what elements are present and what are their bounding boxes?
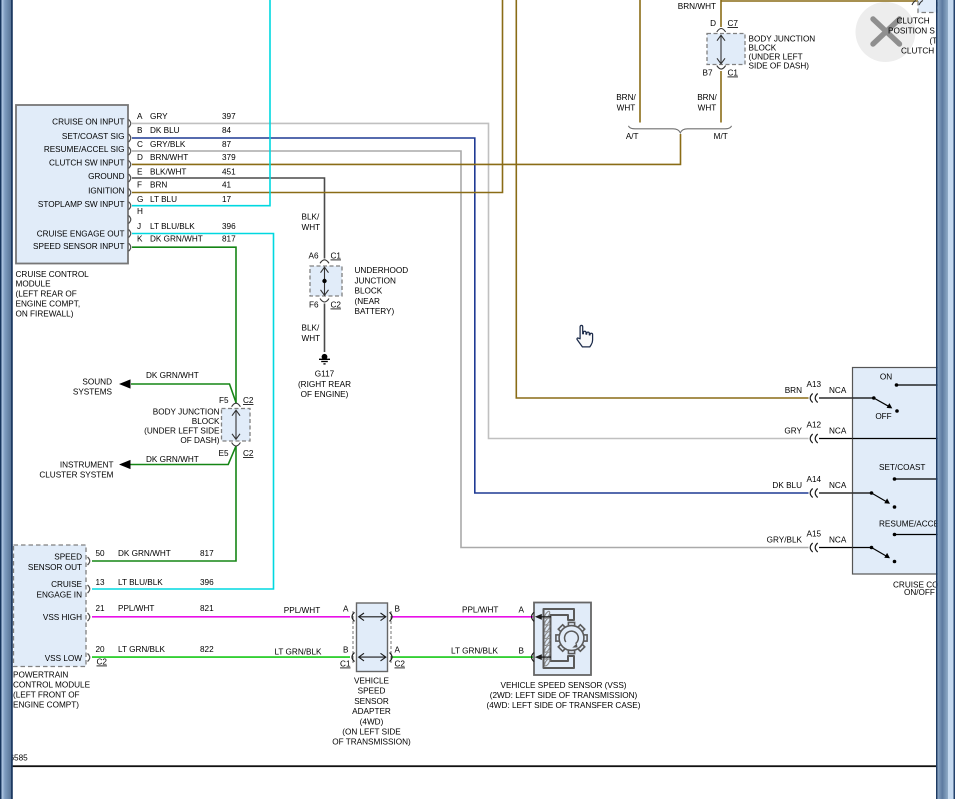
svg-text:BLK/: BLK/ — [302, 324, 320, 333]
underhood junction block internal arrow — [321, 267, 329, 295]
wire GRY/BLK 87 (pin C to A15) — [132, 151, 809, 548]
svg-text:RESUME/ACCEL: RESUME/ACCEL — [879, 520, 944, 529]
svg-text:SENSOR OUT: SENSOR OUT — [28, 563, 82, 572]
ground G117 caption — [298, 370, 351, 400]
svg-text:817: 817 — [200, 549, 214, 558]
svg-text:13: 13 — [96, 578, 106, 587]
arrow to sound systems — [119, 379, 131, 388]
svg-text:POWERTRAIN: POWERTRAIN — [13, 671, 68, 680]
svg-text:396: 396 — [200, 578, 214, 587]
wire BRN/WHT M/T branch lower — [720, 71, 722, 123]
svg-text:A: A — [395, 646, 401, 655]
svg-text:ON: ON — [880, 373, 892, 382]
svg-text:BRN/: BRN/ — [697, 93, 717, 102]
module pin letters A-K — [137, 112, 143, 244]
svg-text:BLK/WHT: BLK/WHT — [150, 167, 186, 176]
svg-text:A13: A13 — [807, 380, 822, 389]
svg-text:WHT: WHT — [302, 334, 321, 343]
svg-text:F6: F6 — [309, 301, 319, 310]
svg-text:VSS HIGH: VSS HIGH — [43, 613, 82, 622]
svg-text:17: 17 — [222, 195, 232, 204]
svg-text:CLUTCH: CLUTCH — [897, 16, 930, 25]
svg-text:MODULE: MODULE — [16, 280, 52, 289]
body junction block (under left side of dash, mid) — [222, 409, 251, 442]
svg-text:SYSTEMS: SYSTEMS — [73, 388, 113, 397]
svg-text:SOUND: SOUND — [82, 377, 112, 386]
vss sensor gear — [556, 622, 587, 653]
svg-text:C7: C7 — [728, 19, 739, 28]
vss caption — [487, 681, 641, 710]
vss adapter dashed connector lines — [352, 611, 354, 663]
svg-text:CONTROL MODULE: CONTROL MODULE — [13, 681, 91, 690]
svg-text:SET/COAST: SET/COAST — [879, 463, 925, 472]
vehicle speed sensor box — [534, 603, 591, 676]
svg-text:BRN: BRN — [150, 181, 167, 190]
svg-text:CRUISE ENGAGE OUT: CRUISE ENGAGE OUT — [37, 230, 125, 239]
svg-text:20: 20 — [96, 645, 106, 654]
svg-text:C1: C1 — [340, 660, 351, 669]
set/coast switch — [870, 463, 940, 509]
PCM connector arcs pins 50,13,21,20 — [88, 557, 90, 662]
svg-text:NCA: NCA — [829, 481, 847, 490]
wire DK GRN/WHT branch to instrument cluster — [130, 446, 236, 465]
svg-text:A: A — [137, 112, 143, 121]
cruise control module connector arcs pins A-K — [129, 119, 131, 251]
svg-text:21: 21 — [96, 604, 106, 613]
svg-text:822: 822 — [200, 645, 214, 654]
svg-text:DK GRN/WHT: DK GRN/WHT — [146, 371, 199, 380]
svg-text:BRN/WHT: BRN/WHT — [678, 2, 716, 11]
svg-text:A6: A6 — [308, 252, 318, 261]
module wire name labels — [150, 112, 203, 244]
svg-text:(RIGHT REAR: (RIGHT REAR — [298, 380, 351, 389]
svg-text:POSITION S: POSITION S — [888, 26, 935, 35]
svg-text:CRUISE: CRUISE — [51, 580, 82, 589]
svg-text:LT BLU: LT BLU — [150, 195, 177, 204]
svg-text:817: 817 — [222, 235, 236, 244]
brace joining A/T and M/T branches — [629, 126, 732, 133]
body junction block top internal arrow — [717, 35, 725, 64]
clutch position switch stub (top right, cut off) — [918, 0, 938, 13]
svg-text:A14: A14 — [807, 475, 822, 484]
svg-text:VEHICLE SPEED SENSOR (VSS): VEHICLE SPEED SENSOR (VSS) — [500, 681, 626, 690]
svg-text:DK GRN/WHT: DK GRN/WHT — [150, 235, 203, 244]
svg-text:ON FIREWALL): ON FIREWALL) — [16, 310, 74, 319]
svg-text:396: 396 — [222, 222, 236, 231]
svg-text:SENSOR: SENSOR — [354, 697, 389, 706]
vss adapter internal arrow bottom — [359, 653, 386, 661]
svg-text:(ON LEFT SIDE: (ON LEFT SIDE — [342, 728, 401, 737]
svg-text:PPL/WHT: PPL/WHT — [462, 606, 498, 615]
svg-text:G: G — [137, 195, 143, 204]
wire BRN/WHT M/T branch upper — [720, 0, 722, 27]
svg-text:C: C — [137, 140, 143, 149]
pin A13 connector — [810, 394, 818, 403]
body junction block (under left side of dash, top) — [707, 34, 745, 65]
svg-text:NCA: NCA — [829, 536, 847, 545]
wire DK GRN/WHT branch to sound systems — [131, 384, 236, 403]
diagram bottom border — [13, 765, 937, 767]
svg-text:BATTERY): BATTERY) — [355, 307, 395, 316]
svg-text:NCA: NCA — [829, 427, 847, 436]
svg-text:IGNITION: IGNITION — [88, 187, 124, 196]
svg-text:451: 451 — [222, 167, 236, 176]
svg-text:A12: A12 — [807, 421, 822, 430]
svg-text:UNDERHOOD: UNDERHOOD — [355, 266, 409, 275]
svg-text:(UNDER LEFT SIDE: (UNDER LEFT SIDE — [144, 427, 220, 436]
svg-text:397: 397 — [222, 112, 236, 121]
svg-text:A/T: A/T — [626, 132, 639, 141]
svg-text:OFF: OFF — [875, 412, 891, 421]
svg-text:379: 379 — [222, 153, 236, 162]
powertrain control module box — [14, 545, 87, 667]
vss adapter internal arrow top — [359, 613, 386, 621]
vss pin A connector — [532, 612, 535, 621]
svg-text:C2: C2 — [395, 660, 406, 669]
vss sensor swirl arrow — [565, 631, 579, 643]
svg-text:GRY: GRY — [784, 427, 802, 436]
svg-text:CRUISE CONTROL: CRUISE CONTROL — [16, 270, 90, 279]
svg-text:DK GRN/WHT: DK GRN/WHT — [118, 549, 171, 558]
svg-text:(NEAR: (NEAR — [355, 297, 381, 306]
body junction block top connector arcs D/C7 B7/C1 — [717, 29, 726, 70]
svg-text:BLK/: BLK/ — [302, 213, 320, 222]
on/off switch — [872, 373, 940, 421]
resume/accel switch — [870, 520, 944, 564]
svg-text:(LEFT FRONT OF: (LEFT FRONT OF — [13, 691, 80, 700]
wire LT BLU/BLK 396 (pin J to PCM cruise engage in) — [92, 234, 274, 590]
vss adapter caption — [332, 677, 411, 747]
wire BLK/WHT 451 upper segment (pin E to underhood junction block) — [132, 178, 325, 259]
A14 lead into box — [853, 492, 872, 494]
svg-text:E: E — [137, 167, 143, 176]
svg-text:CRUISE ON INPUT: CRUISE ON INPUT — [52, 117, 124, 126]
svg-text:VSS LOW: VSS LOW — [45, 654, 83, 663]
cruise control module box — [16, 105, 128, 264]
close button — [856, 2, 916, 62]
wire DK GRN/WHT 817 upper segment (pin K to body junction block F5) — [132, 247, 236, 403]
svg-text:JUNCTION: JUNCTION — [355, 276, 396, 285]
svg-text:CLUTCH: CLUTCH — [901, 46, 934, 55]
arrow to instrument cluster — [119, 460, 131, 469]
wire PPL/WHT 821 (PCM pin 21 to adapter) — [92, 616, 350, 618]
svg-text:BODY JUNCTION: BODY JUNCTION — [749, 34, 816, 43]
svg-text:GROUND: GROUND — [88, 172, 124, 181]
vss sensor body C-shape — [544, 609, 575, 668]
svg-text:BLOCK: BLOCK — [192, 417, 220, 426]
PCM pin labels — [28, 553, 83, 664]
black lead pin A14 to switch box — [819, 492, 871, 494]
wire PPL/WHT (adapter to VSS pin A) — [392, 616, 533, 618]
svg-text:C1: C1 — [331, 252, 342, 261]
svg-text:F: F — [137, 181, 142, 190]
svg-text:VEHICLE: VEHICLE — [354, 677, 390, 686]
svg-text:BRN/WHT: BRN/WHT — [150, 153, 188, 162]
svg-text:M/T: M/T — [714, 132, 728, 141]
wire BLK/WHT 451 lower segment (junction block to ground G117) — [324, 304, 326, 353]
left window frame — [0, 0, 13, 799]
svg-text:DK BLU: DK BLU — [772, 481, 802, 490]
ground G117 — [319, 354, 330, 364]
svg-text:INSTRUMENT: INSTRUMENT — [60, 460, 114, 469]
pin A15 connector — [810, 543, 818, 552]
svg-text:B: B — [343, 646, 349, 655]
wire LT GRN/BLK (adapter to VSS pin B) — [392, 656, 533, 658]
svg-text:41: 41 — [222, 181, 232, 190]
svg-text:GRY/BLK: GRY/BLK — [767, 536, 803, 545]
svg-text:B: B — [519, 647, 525, 656]
svg-text:WHT: WHT — [302, 223, 321, 232]
underhood junction block caption — [355, 266, 409, 316]
svg-text:SET/COAST SIG: SET/COAST SIG — [62, 132, 125, 141]
wire BRN/WHT top run to clutch position switch — [721, 0, 918, 2]
svg-text:RESUME/ACCEL SIG: RESUME/ACCEL SIG — [44, 145, 125, 154]
wire LT BLU 17 (pin G stoplamp feed to top) — [132, 0, 270, 206]
wire BRN feed to A13 (from top) — [516, 0, 808, 398]
svg-text:BODY JUNCTION: BODY JUNCTION — [153, 408, 220, 417]
pin A12 connector — [810, 434, 818, 443]
wire LT GRN/BLK 822 (PCM pin 20 to adapter) — [92, 656, 350, 658]
svg-text:(UNDER LEFT: (UNDER LEFT — [749, 52, 803, 61]
svg-text:D: D — [137, 153, 143, 162]
svg-text:ADAPTER: ADAPTER — [352, 707, 391, 716]
vss sensor coil — [544, 611, 551, 667]
svg-text:(LEFT REAR OF: (LEFT REAR OF — [16, 290, 77, 299]
svg-text:CLUTCH SW INPUT: CLUTCH SW INPUT — [49, 158, 125, 167]
svg-text:LT BLU/BLK: LT BLU/BLK — [118, 578, 163, 587]
svg-text:G117: G117 — [315, 370, 335, 379]
wire GRY 397 (pin A to A12) — [132, 123, 809, 438]
A15 lead into box — [853, 547, 872, 549]
svg-text:OF ENGINE): OF ENGINE) — [301, 390, 349, 399]
svg-text:84: 84 — [222, 126, 232, 135]
wire BRN 41 (pin F ignition feed from top) — [132, 0, 503, 193]
svg-text:50: 50 — [96, 549, 106, 558]
svg-text:SPEED: SPEED — [54, 553, 82, 562]
underhood junction block — [310, 266, 342, 296]
body junction block top caption — [749, 34, 816, 70]
module circuit numbers — [222, 112, 236, 244]
svg-text:ENGINE COMPT): ENGINE COMPT) — [13, 701, 79, 710]
svg-text:ENGAGE IN: ENGAGE IN — [37, 591, 83, 600]
svg-text:BLOCK: BLOCK — [749, 43, 777, 52]
svg-text:821: 821 — [200, 604, 214, 613]
svg-text:A: A — [519, 606, 525, 615]
svg-text:LT BLU/BLK: LT BLU/BLK — [150, 222, 195, 231]
svg-text:CLUSTER SYSTEM: CLUSTER SYSTEM — [39, 471, 113, 480]
svg-text:GRY: GRY — [150, 112, 168, 121]
svg-text:C2: C2 — [243, 396, 254, 405]
wire BRN/WHT A/T branch — [639, 0, 641, 123]
svg-text:LT GRN/BLK: LT GRN/BLK — [118, 645, 166, 654]
svg-text:LT GRN/BLK: LT GRN/BLK — [451, 647, 499, 656]
body junction block caption — [144, 408, 220, 446]
svg-text:OF TRANSMISSION): OF TRANSMISSION) — [332, 738, 411, 747]
svg-text:A: A — [343, 605, 349, 614]
svg-text:SPEED: SPEED — [358, 687, 386, 696]
svg-text:(2WD: LEFT SIDE OF TRANSMISSIO: (2WD: LEFT SIDE OF TRANSMISSION) — [490, 691, 638, 700]
svg-text:WHT: WHT — [698, 104, 717, 113]
svg-text:D: D — [710, 19, 716, 28]
svg-text:C2: C2 — [97, 658, 108, 667]
svg-text:PPL/WHT: PPL/WHT — [284, 606, 320, 615]
svg-text:C2: C2 — [331, 301, 342, 310]
cruise control module pin labels — [33, 117, 125, 251]
svg-text:C2: C2 — [243, 449, 254, 458]
svg-text:PPL/WHT: PPL/WHT — [118, 604, 154, 613]
black lead pin A13 to switch box — [819, 397, 873, 399]
wire BRN/WHT 379 (pin D to A/T-M/T brace) — [132, 134, 681, 164]
svg-text:B: B — [395, 605, 401, 614]
cruise control on/off switch box — [853, 368, 941, 575]
pin A14 connector — [810, 489, 818, 498]
svg-text:B: B — [137, 126, 143, 135]
cruise control module caption — [16, 270, 90, 319]
svg-text:K: K — [137, 235, 143, 244]
svg-text:WHT: WHT — [617, 104, 636, 113]
svg-text:(4WD): (4WD) — [360, 717, 384, 726]
svg-text:OF DASH): OF DASH) — [180, 436, 219, 445]
svg-text:E5: E5 — [218, 449, 228, 458]
svg-text:(4WD: LEFT SIDE OF TRANSFER CA: (4WD: LEFT SIDE OF TRANSFER CASE) — [487, 701, 641, 710]
wire DK BLU 84 (pin B to A14) — [132, 138, 809, 493]
black lead pin A15 to switch box — [819, 547, 871, 549]
svg-text:LT GRN/BLK: LT GRN/BLK — [274, 648, 322, 657]
svg-text:A15: A15 — [807, 530, 822, 539]
svg-text:NCA: NCA — [829, 386, 847, 395]
svg-text:J: J — [137, 222, 141, 231]
svg-text:GRY/BLK: GRY/BLK — [150, 140, 186, 149]
svg-text:87: 87 — [222, 140, 232, 149]
vss adapter box — [357, 603, 388, 672]
svg-text:F5: F5 — [219, 396, 229, 405]
A12 common line through switch box — [853, 438, 941, 440]
svg-text:B7: B7 — [702, 69, 712, 78]
black lead pin A12 through switch box — [819, 438, 940, 440]
vss adapter connector arcs bottom — [352, 653, 392, 662]
svg-text:H: H — [137, 207, 143, 216]
svg-text:ENGINE COMPT,: ENGINE COMPT, — [16, 300, 81, 309]
svg-text:STOPLAMP SW INPUT: STOPLAMP SW INPUT — [38, 200, 125, 209]
svg-text:SIDE OF DASH): SIDE OF DASH) — [749, 61, 810, 70]
body junction block connector arcs F5/C2 E5/C2 — [232, 403, 241, 446]
vss adapter connector arcs top — [352, 612, 392, 621]
vss pin B connector — [532, 653, 535, 662]
mouse cursor (hand pointer) — [577, 325, 593, 347]
svg-text:DK GRN/WHT: DK GRN/WHT — [146, 455, 199, 464]
body junction block internal arrow — [232, 410, 240, 439]
PCM caption — [13, 671, 91, 710]
underhood junction block connector arcs A6/C1 F6/C2 — [320, 260, 329, 302]
A13 lead into box — [853, 397, 874, 399]
svg-text:BRN: BRN — [785, 386, 802, 395]
svg-text:SPEED SENSOR INPUT: SPEED SENSOR INPUT — [33, 242, 124, 251]
right window frame — [936, 0, 955, 799]
wire DK GRN/WHT 817 lower segment (body junction block E5 to PCM pin 50) — [92, 446, 236, 561]
svg-text:BRN/: BRN/ — [616, 93, 636, 102]
svg-text:DK BLU: DK BLU — [150, 126, 180, 135]
svg-text:C1: C1 — [728, 69, 739, 78]
svg-text:BLOCK: BLOCK — [355, 287, 383, 296]
